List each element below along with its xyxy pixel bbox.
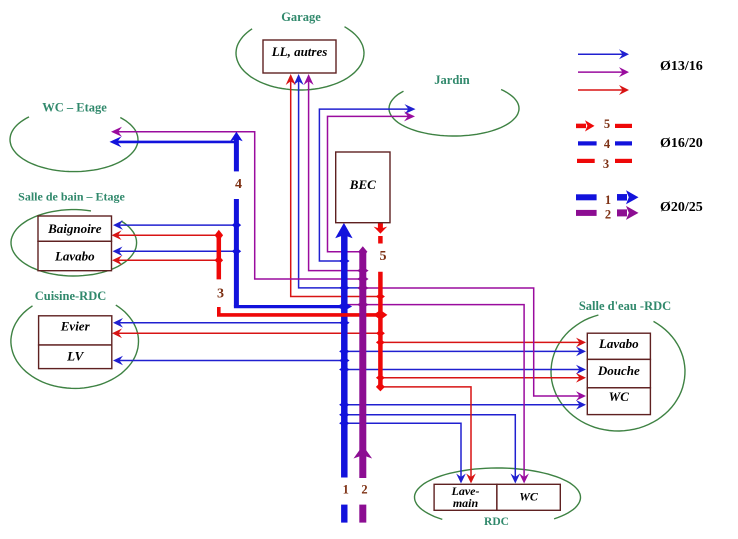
pipe 5 arrowhead down [374, 227, 388, 234]
pipe 2 bottom dash [359, 505, 366, 523]
svg-text:3: 3 [603, 157, 609, 171]
pipe 5 node Douche [376, 374, 385, 381]
pipe 1 trunk vertical [341, 233, 348, 478]
pipe 3 vertical upper run [217, 235, 222, 279]
pipe 4 vertical upper dash [234, 138, 239, 171]
svg-text:5: 5 [380, 249, 387, 264]
pipe 1 node Douche [339, 366, 350, 373]
pipe 1 node Lave-main [339, 420, 350, 427]
svg-text:Evier: Evier [60, 318, 91, 333]
wire blue to WC RDC [344, 415, 515, 478]
pipe 1 node Garage [339, 284, 350, 291]
wire purple to WC Etage [118, 132, 363, 279]
pipe 1 node LV [339, 357, 350, 364]
box Lave-main [434, 484, 497, 510]
room ellipse Garage [236, 27, 364, 90]
wire blue to Jardin [319, 109, 409, 261]
pipe 2 node garage [357, 267, 369, 275]
wire red to Douche [380, 377, 580, 379]
wire purple to Jardin [328, 116, 409, 251]
pipe 5 node Evier [376, 330, 385, 337]
pipe 1 node Jardin [339, 258, 350, 265]
svg-text:4: 4 [604, 137, 611, 151]
pipe 4 vertical main run [234, 199, 239, 307]
legend pipe 3 dash left [577, 159, 595, 163]
room ellipse WC - Etage [10, 117, 138, 172]
wire red to Baignoire [118, 234, 219, 236]
wire blue to Garage LL [299, 81, 363, 288]
svg-text:1: 1 [343, 482, 349, 496]
pipe 1 arrowhead into BEC [335, 223, 352, 238]
box WC salle d'eau [587, 388, 650, 415]
svg-text:BEC: BEC [349, 177, 376, 192]
legend pipe 4 dash left [578, 141, 597, 145]
box BEC [336, 152, 390, 223]
box LV [39, 345, 112, 369]
wire blue to LV [119, 360, 344, 362]
pipe 4 horizontal run to trunk 1 [234, 305, 344, 308]
svg-text:main: main [453, 496, 479, 510]
legend pipe 4 dash right [615, 141, 632, 145]
svg-text:5: 5 [604, 117, 610, 131]
wire red to Lavabo (etage) [118, 259, 219, 261]
pipe 2 node WC salle d'eau [357, 284, 369, 292]
wire blue to WC salle d'eau [344, 404, 580, 406]
room ellipse Salle de bain - Etage [11, 210, 137, 276]
svg-text:LV: LV [66, 349, 84, 364]
room ellipse RDC [415, 468, 581, 519]
svg-text:RDC: RDC [484, 516, 509, 528]
pipe 1 bottom dash [341, 505, 347, 523]
pipe 5 end node Lave-main [376, 382, 385, 391]
wire blue to Lavabo (salle d'eau) [344, 350, 580, 352]
room ellipse Salle d'eau - RDC [551, 315, 685, 431]
pipe 4 node at Baignoire branch [232, 221, 242, 229]
pipe 3 top node at Baignoire branch [215, 230, 224, 241]
svg-text:WC: WC [519, 490, 539, 504]
wire red to Lavabo (salle d'eau) [380, 341, 580, 343]
pipe 2 trunk vertical [359, 253, 366, 478]
pipe 3 elbow [219, 307, 381, 315]
legend pipe 5 arrow [576, 124, 586, 129]
svg-text:Ø20/25: Ø20/25 [660, 200, 703, 215]
wire blue to Douche [344, 369, 580, 371]
wire purple to WC RDC [346, 305, 524, 478]
svg-text:3: 3 [217, 287, 224, 302]
svg-text:Lavabo: Lavabo [598, 336, 639, 351]
svg-text:Ø16/20: Ø16/20 [660, 136, 703, 151]
wire blue to Lavabo (etage) [119, 250, 237, 252]
pipe 1 node Evier [339, 319, 350, 326]
pipe 2 mid arrowhead [354, 446, 373, 459]
wire purple to Garage LL [309, 81, 363, 271]
pipe 4 arrowhead up at WC-Etage corner [230, 132, 243, 142]
box Lavabo salle d'eau [587, 333, 650, 359]
svg-text:WC – Etage: WC – Etage [42, 101, 107, 115]
pipe 4 horizontal to WC Etage with arrow [117, 141, 237, 144]
box Baignoire [38, 216, 112, 241]
box LL, autres [263, 40, 336, 73]
legend pipe 5 dash [615, 124, 632, 128]
pipe 1 node WC salle d'eau [339, 401, 350, 408]
pipe 5 node garage [376, 293, 385, 300]
pipe 5 outlet stub from BEC [378, 223, 383, 229]
pipe 5 main vertical [378, 272, 383, 388]
svg-text:2: 2 [361, 482, 367, 496]
svg-text:2: 2 [605, 208, 611, 222]
svg-text:1: 1 [605, 193, 611, 207]
svg-text:4: 4 [235, 177, 242, 192]
svg-text:Ø13/16: Ø13/16 [660, 59, 703, 74]
pipe 2 node WC RDC [357, 301, 369, 309]
svg-text:Salle d'eau -RDC: Salle d'eau -RDC [579, 299, 671, 313]
wire blue to Evier [119, 322, 344, 324]
legend thin purple arrow [578, 71, 623, 73]
legend pipe 1 dash [576, 194, 597, 200]
pipe 4 node at Lavabo branch [232, 248, 242, 256]
wire red to Garage LL [291, 81, 381, 297]
legend thin red arrow [578, 89, 623, 91]
pipe 5 upper dash stub [378, 236, 383, 244]
wire blue to Baignoire [119, 224, 236, 226]
wire red to Lave-main [380, 387, 471, 478]
pipe 5 node Lavabo salle d'eau [376, 339, 385, 346]
svg-text:LL, autres: LL, autres [271, 44, 328, 59]
pipe 5 junction pipe 3 (big) [373, 310, 387, 320]
legend pipe 2 dash [576, 210, 597, 216]
pipe 2 top node diamond [358, 246, 367, 257]
pipe 1 junction pipe 4 (big) [337, 302, 353, 310]
pipe 3 node at Lavabo branch [215, 256, 224, 265]
svg-text:Baignoire: Baignoire [47, 221, 102, 236]
svg-text:Lavabo: Lavabo [54, 248, 95, 263]
legend pipe 3 dash right [615, 159, 632, 163]
svg-text:Jardin: Jardin [434, 73, 469, 87]
box Lavabo etage [38, 241, 112, 270]
pipe 1 node WC RDC [339, 411, 350, 418]
room ellipse Jardin [389, 90, 519, 137]
wire blue to Lave-main [344, 423, 461, 477]
legend pipe 1 thick arrow [617, 194, 627, 201]
pipe 1 node Lavabo salle d'eau [339, 348, 350, 355]
svg-text:Garage: Garage [281, 10, 321, 24]
svg-text:Salle de bain – Etage: Salle de bain – Etage [18, 190, 125, 204]
svg-text:Douche: Douche [597, 363, 640, 378]
pipe 2 node WC etage [357, 275, 369, 283]
svg-text:WC: WC [609, 389, 630, 404]
wire red to Evier [118, 332, 380, 334]
box Evier [39, 316, 112, 345]
wire purple to WC salle d'eau [363, 288, 580, 396]
room ellipse Cuisine-RDC [11, 305, 139, 388]
svg-text:Cuisine-RDC: Cuisine-RDC [35, 289, 107, 303]
legend pipe 2 thick arrow [617, 209, 627, 216]
box WC RDC [497, 484, 560, 510]
legend thin blue arrow [578, 53, 623, 55]
box Douche [587, 359, 650, 387]
